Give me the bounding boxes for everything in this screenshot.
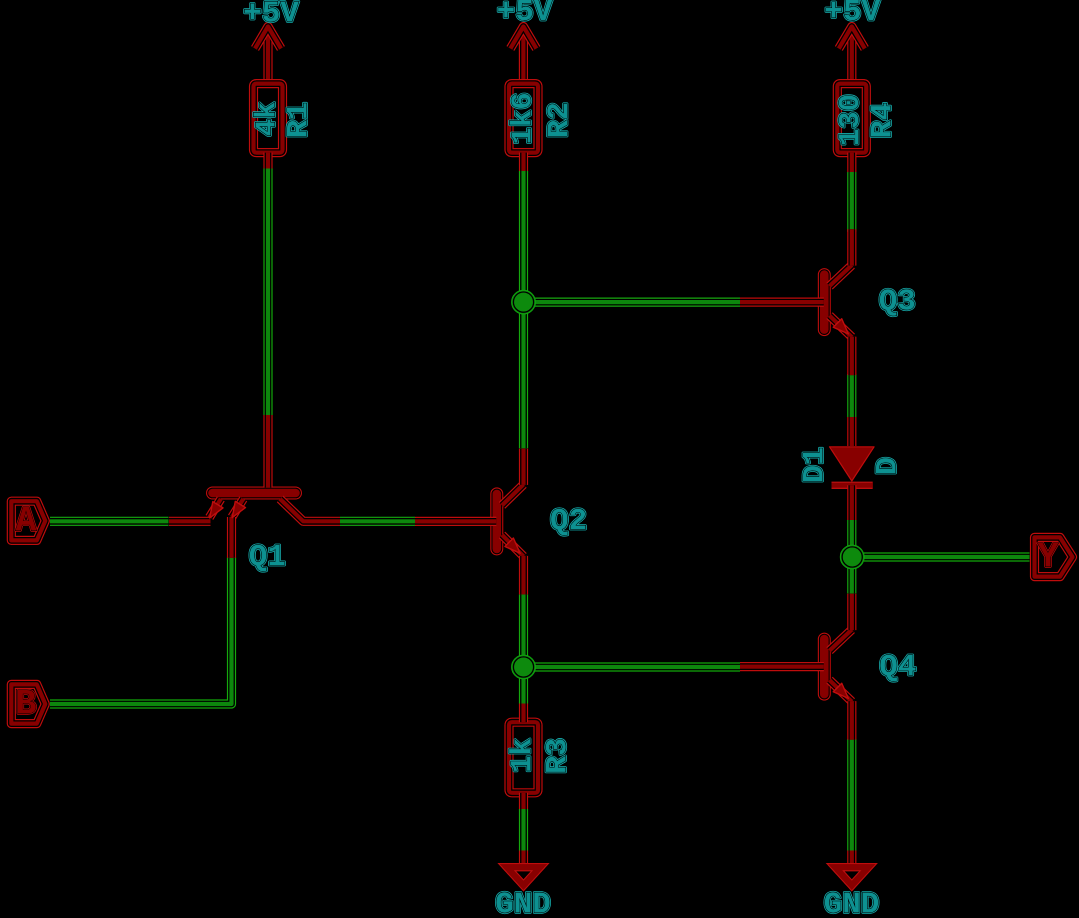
svg-text:R3: R3 [542,738,576,774]
svg-text:D: D [872,457,906,475]
svg-text:130: 130 [834,94,867,146]
svg-text:1k6: 1k6 [507,92,540,144]
svg-text:Q2: Q2 [550,504,587,539]
svg-text:Y: Y [1037,538,1058,578]
svg-text:1k: 1k [506,738,539,773]
svg-text:A: A [15,501,36,541]
svg-text:4k: 4k [250,102,283,137]
svg-text:+5V: +5V [497,0,553,30]
svg-text:GND: GND [824,888,880,918]
svg-text:+5V: +5V [243,0,299,32]
svg-text:B: B [15,685,36,725]
svg-text:R4: R4 [867,102,901,138]
svg-text:Q3: Q3 [879,285,916,320]
svg-text:GND: GND [495,888,551,918]
svg-text:D1: D1 [799,447,833,483]
svg-text:+5V: +5V [824,0,880,30]
svg-text:Q1: Q1 [249,540,286,575]
svg-text:R1: R1 [283,102,317,138]
svg-text:Q4: Q4 [879,650,916,685]
svg-text:R2: R2 [543,102,577,138]
